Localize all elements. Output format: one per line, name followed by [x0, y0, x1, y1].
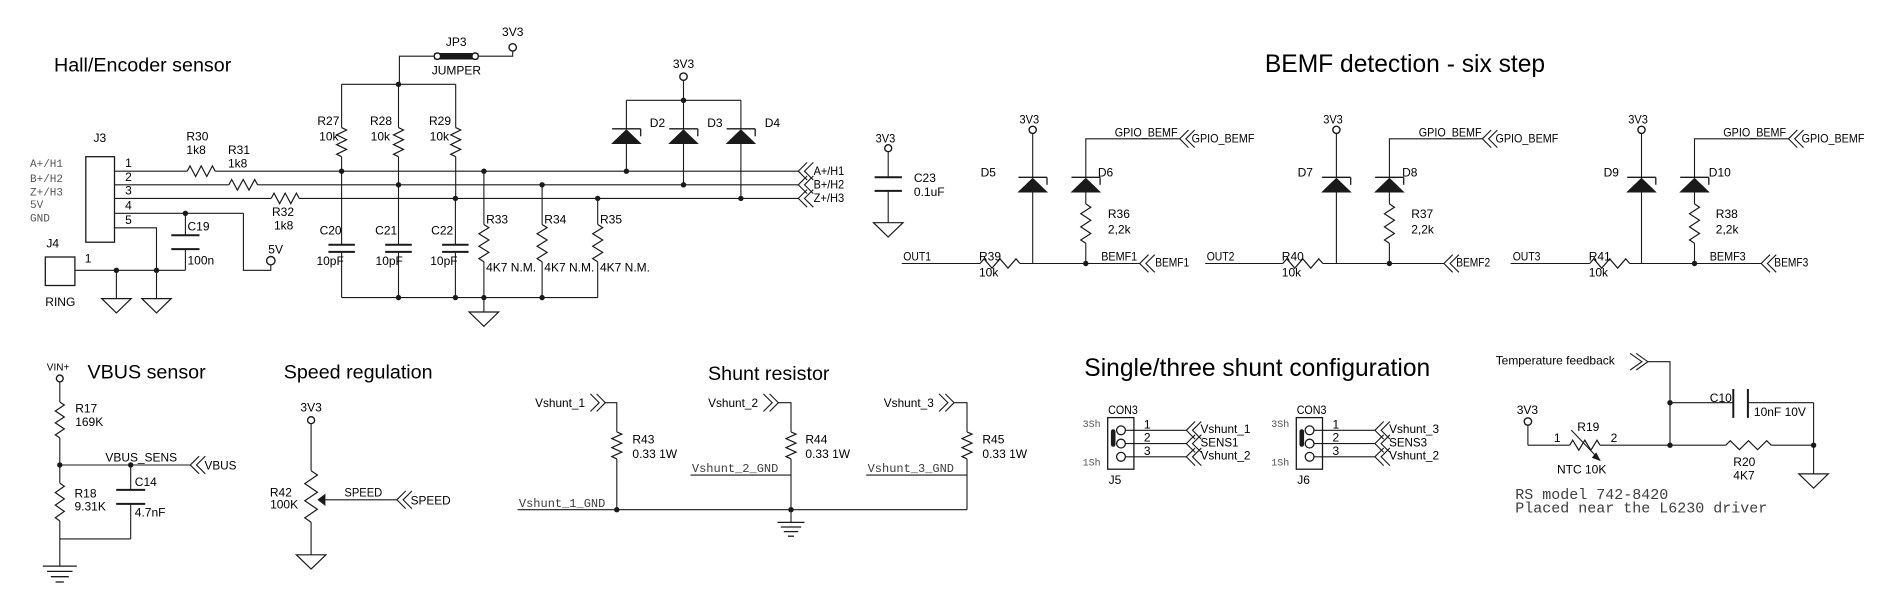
svg-text:C20: C20	[320, 224, 342, 238]
svg-text:Vshunt_1: Vshunt_1	[535, 396, 585, 410]
svg-text:3V3: 3V3	[1020, 113, 1040, 127]
svg-text:1: 1	[125, 156, 132, 170]
svg-text:0.33 1W: 0.33 1W	[632, 447, 677, 461]
resistor R27	[317, 114, 346, 171]
svg-text:0.33 1W: 0.33 1W	[805, 447, 850, 461]
svg-text:OUT3: OUT3	[1513, 250, 1541, 264]
resistor R28	[370, 114, 404, 185]
potentiometer R42	[270, 471, 326, 555]
power terminal 3V3 at R19	[1517, 403, 1539, 445]
resistor R30	[186, 130, 215, 177]
svg-text:10k: 10k	[430, 129, 450, 143]
svg-text:GPIO_BEMF: GPIO_BEMF	[1115, 126, 1178, 140]
resistor R33	[479, 171, 536, 297]
svg-text:1k8: 1k8	[228, 156, 248, 170]
svg-text:SENS3: SENS3	[1389, 435, 1427, 449]
ground at R20	[1799, 445, 1829, 488]
wire Vshunt_2 to R44	[778, 403, 791, 432]
svg-text:R37: R37	[1411, 207, 1433, 221]
resistor R45	[962, 432, 1028, 510]
ground at J3 pin5	[142, 270, 171, 313]
svg-text:1k8: 1k8	[274, 219, 294, 233]
svg-text:4: 4	[125, 198, 132, 212]
net flag Vshunt_3	[939, 394, 954, 412]
svg-text:3: 3	[125, 183, 132, 197]
svg-text:1k8: 1k8	[186, 143, 206, 157]
wire D10 to GPIO_BEMF	[1695, 139, 1789, 178]
svg-text:5V: 5V	[30, 200, 44, 212]
net flag VBUS	[190, 456, 236, 474]
svg-text:1: 1	[1144, 417, 1151, 431]
section title: Hall/Encoder sensor	[54, 55, 232, 77]
wire R42 wiper to SPEED	[325, 499, 397, 501]
wire J5 pin 2	[1125, 443, 1186, 445]
net label Vshunt_1	[535, 396, 585, 410]
wire Vshunt_1 to R43	[605, 403, 616, 432]
net flag Vshunt_1	[590, 394, 605, 412]
power terminal 3V3 at diodes	[673, 57, 695, 100]
net flag BEMF1	[1140, 255, 1190, 273]
net flag GPIO_BEMF (3)	[1789, 130, 1865, 148]
svg-text:D7: D7	[1298, 166, 1314, 180]
diode D9	[1604, 166, 1656, 264]
net flag Vshunt_3 at J6 pin 1	[1375, 422, 1440, 440]
net flag SENS1 at J5 pin 2	[1186, 435, 1239, 453]
power terminal 3V3 at D7	[1323, 113, 1343, 178]
connector J5 CON3	[1083, 403, 1151, 487]
net label BEMF3 on wire	[1710, 250, 1746, 264]
svg-text:R29: R29	[429, 114, 451, 128]
svg-text:2: 2	[125, 170, 132, 184]
svg-text:2: 2	[1144, 431, 1151, 445]
svg-text:0.1uF: 0.1uF	[914, 185, 945, 199]
wire OUT3 to BEMF3 line	[1511, 261, 1762, 266]
net label GPIO_BEMF on wire (3)	[1723, 126, 1786, 140]
svg-text:C14: C14	[135, 475, 157, 489]
svg-text:10k: 10k	[979, 266, 999, 280]
connector J3	[86, 131, 115, 242]
svg-text:3V3: 3V3	[876, 132, 896, 146]
resistor R43	[612, 432, 678, 510]
resistor R39	[979, 249, 1020, 279]
svg-text:3Sh: 3Sh	[1271, 419, 1289, 431]
svg-text:Vshunt_3: Vshunt_3	[884, 396, 934, 410]
svg-text:R38: R38	[1716, 207, 1738, 221]
wire R19 to R20	[1600, 444, 1726, 446]
svg-text:R34: R34	[544, 213, 566, 227]
capacitor C23	[875, 171, 945, 223]
svg-text:R39: R39	[979, 249, 1001, 263]
svg-text:1: 1	[1333, 417, 1340, 431]
svg-text:3V3: 3V3	[673, 57, 695, 71]
net label BEMF1 on wire	[1101, 250, 1137, 264]
svg-text:R35: R35	[600, 213, 622, 227]
svg-text:Hall/Encoder sensor: Hall/Encoder sensor	[54, 55, 232, 77]
power terminal 3V3 at R42	[300, 401, 322, 471]
power terminal 3V3 at C23	[876, 132, 896, 178]
wire pull-up rail R27-R29	[342, 82, 456, 128]
wire JP3 right to 3V3	[478, 51, 512, 56]
resistor R20	[1726, 441, 1771, 483]
svg-text:VBUS: VBUS	[205, 459, 237, 473]
earth ground at shunt rail	[778, 510, 805, 537]
svg-text:R45: R45	[982, 433, 1004, 447]
resistor R38	[1690, 192, 1740, 263]
svg-text:J4: J4	[46, 237, 59, 251]
svg-text:R43: R43	[632, 433, 654, 447]
svg-text:R31: R31	[228, 143, 250, 157]
svg-text:C21: C21	[375, 224, 397, 238]
section title: VBUS sensor	[88, 361, 207, 383]
net flag Vshunt_2	[763, 394, 778, 412]
svg-text:C23: C23	[914, 171, 936, 185]
svg-text:5: 5	[125, 213, 132, 227]
svg-text:CON3: CON3	[1108, 403, 1138, 417]
svg-text:A+/H1: A+/H1	[814, 164, 845, 178]
svg-text:100n: 100n	[188, 253, 215, 267]
resistor R31	[228, 143, 258, 190]
power terminal 3V3 at D9	[1628, 113, 1648, 178]
svg-text:BEMF3: BEMF3	[1774, 255, 1808, 269]
diode D3	[669, 116, 723, 185]
svg-text:BEMF2: BEMF2	[1456, 255, 1490, 269]
svg-text:Speed regulation: Speed regulation	[284, 361, 433, 383]
net label Vshunt_2_GND	[692, 462, 778, 476]
resistor R35	[593, 198, 650, 297]
wire R20 to ground node	[1771, 403, 1816, 448]
svg-text:10nF 10V: 10nF 10V	[1754, 405, 1806, 419]
svg-text:GPIO_BEMF: GPIO_BEMF	[1419, 126, 1482, 140]
section title: Speed regulation	[284, 361, 433, 383]
wire J5 pin 3	[1125, 456, 1186, 458]
capacitor C10	[1670, 389, 1814, 419]
svg-text:R33: R33	[486, 213, 508, 227]
capacitor C19	[171, 213, 214, 270]
resistor R17	[55, 401, 103, 465]
svg-text:OUT2: OUT2	[1207, 250, 1235, 264]
svg-text:R36: R36	[1108, 207, 1130, 221]
svg-text:R18: R18	[75, 486, 97, 500]
svg-text:Vshunt_2: Vshunt_2	[708, 396, 758, 410]
svg-text:B+/H2: B+/H2	[30, 174, 63, 186]
svg-text:Vshunt_2: Vshunt_2	[1389, 449, 1439, 463]
power terminal 3V3 at D5	[1020, 113, 1040, 178]
wire A+/H1 line with junctions	[115, 169, 799, 174]
svg-text:D8: D8	[1402, 166, 1418, 180]
ground at filter rail	[469, 298, 499, 327]
wire J6 pin 3	[1314, 456, 1375, 458]
net flag SPEED	[397, 491, 451, 509]
svg-text:Temperature feedback: Temperature feedback	[1496, 354, 1616, 368]
net flag Vshunt_2 at J5 pin 3	[1186, 448, 1251, 466]
net flag A+/H1	[798, 162, 844, 180]
svg-text:A+/H1: A+/H1	[30, 159, 63, 171]
svg-text:2,2k: 2,2k	[1411, 223, 1435, 237]
resistor R34	[537, 185, 594, 298]
resistor R37	[1384, 192, 1434, 263]
svg-text:VIN+: VIN+	[47, 363, 70, 374]
svg-text:D6: D6	[1098, 166, 1114, 180]
net label VBUS_SENS	[105, 451, 177, 465]
svg-text:J5: J5	[1109, 473, 1122, 487]
wire J3 pin 4 to 5V	[115, 211, 271, 271]
net label OUT2	[1207, 250, 1235, 264]
resistor R29	[429, 114, 461, 198]
svg-text:R32: R32	[272, 205, 294, 219]
svg-text:3V3: 3V3	[1323, 113, 1343, 127]
svg-text:3: 3	[1144, 444, 1151, 458]
wire C14 to R18 bottom	[60, 538, 131, 540]
svg-text:D5: D5	[981, 166, 997, 180]
svg-text:10k: 10k	[319, 129, 339, 143]
svg-text:Vshunt_1_GND: Vshunt_1_GND	[519, 497, 605, 511]
resistor R18	[55, 465, 106, 566]
svg-text:VBUS_SENS: VBUS_SENS	[105, 451, 177, 465]
svg-text:C19: C19	[188, 219, 210, 233]
svg-text:10k: 10k	[1589, 266, 1609, 280]
net label GPIO_BEMF on wire (1)	[1115, 126, 1178, 140]
net flag Temperature feedback	[1630, 353, 1648, 370]
note text RS model	[1515, 487, 1767, 518]
wire J3 pin 5 to ground	[115, 228, 157, 270]
net flag Vshunt_1 at J5 pin 1	[1186, 422, 1251, 440]
diode D6	[1072, 166, 1114, 192]
svg-text:VBUS sensor: VBUS sensor	[88, 361, 207, 383]
svg-text:C22: C22	[431, 224, 453, 238]
svg-text:2,2k: 2,2k	[1108, 223, 1132, 237]
svg-text:C10: C10	[1710, 391, 1732, 405]
wire D6 to GPIO_BEMF	[1086, 139, 1180, 178]
net flag Z+/H3	[798, 190, 844, 208]
wire diode rail D2-D4	[626, 98, 741, 129]
svg-text:JUMPER: JUMPER	[432, 64, 482, 78]
diode D7	[1298, 166, 1351, 264]
svg-text:RING: RING	[45, 295, 75, 309]
ground at J4	[102, 270, 132, 313]
svg-text:R27: R27	[317, 114, 339, 128]
svg-text:Shunt resistor: Shunt resistor	[708, 363, 830, 385]
svg-text:10pF: 10pF	[316, 254, 343, 268]
svg-text:1: 1	[85, 252, 92, 266]
wire J4 pin 1 to C19	[75, 268, 185, 273]
svg-text:100K: 100K	[270, 497, 298, 511]
svg-text:Placed near the L6230 driver: Placed near the L6230 driver	[1515, 501, 1767, 518]
jumper JP3	[432, 35, 482, 77]
svg-text:0.33 1W: 0.33 1W	[982, 447, 1027, 461]
connector J4	[45, 237, 91, 309]
svg-text:D2: D2	[650, 116, 666, 130]
wire Vshunt_2_GND stub	[691, 474, 792, 476]
svg-text:BEMF3: BEMF3	[1710, 250, 1746, 264]
diode D4	[727, 116, 781, 198]
net label OUT3	[1513, 250, 1541, 264]
svg-text:4K7 N.M.: 4K7 N.M.	[544, 260, 594, 274]
svg-text:Vshunt_2: Vshunt_2	[1201, 449, 1251, 463]
capacitor C20	[316, 171, 354, 297]
wire OUT1 to BEMF1 line	[902, 261, 1140, 266]
svg-text:B+/H2: B+/H2	[814, 178, 845, 192]
svg-text:SPEED: SPEED	[411, 493, 451, 507]
svg-text:Vshunt_3: Vshunt_3	[1389, 422, 1439, 436]
svg-text:Z+/H3: Z+/H3	[814, 191, 845, 205]
svg-text:D10: D10	[1709, 166, 1731, 180]
wire Temperature feedback to NTC node	[1648, 362, 1673, 448]
wire Vshunt_3 to R45	[954, 403, 967, 432]
svg-text:R41: R41	[1589, 249, 1611, 263]
section title: Single/three shunt configuration	[1084, 355, 1430, 382]
section title: Shunt resistor	[708, 363, 830, 385]
svg-text:D4: D4	[765, 116, 781, 130]
section title: Temperature feedback	[1496, 354, 1616, 368]
capacitor C22	[430, 198, 468, 297]
svg-text:4K7 N.M.: 4K7 N.M.	[600, 260, 650, 274]
net flag BEMF2	[1444, 255, 1491, 273]
svg-text:R20: R20	[1733, 455, 1755, 469]
svg-text:2: 2	[1611, 431, 1618, 445]
wire 3V3 to R19	[1528, 431, 1570, 445]
svg-text:BEMF detection - six step: BEMF detection - six step	[1265, 51, 1545, 78]
earth ground at VBUS divider	[43, 566, 77, 582]
svg-text:4K7 N.M.: 4K7 N.M.	[486, 260, 536, 274]
resistor R41	[1589, 249, 1630, 279]
resistor R32	[271, 193, 299, 232]
ground at R42	[296, 555, 326, 569]
svg-text:R40: R40	[1282, 249, 1304, 263]
svg-text:D9: D9	[1604, 166, 1620, 180]
svg-text:GPIO_BEMF: GPIO_BEMF	[1802, 131, 1865, 145]
net flag Vshunt_2 at J6 pin 3	[1375, 448, 1440, 466]
diode D5	[981, 166, 1047, 264]
connector J6 CON3	[1271, 403, 1339, 487]
net label Vshunt_1_GND	[519, 497, 605, 511]
svg-text:GPIO_BEMF: GPIO_BEMF	[1496, 131, 1559, 145]
svg-text:10pF: 10pF	[430, 254, 457, 268]
capacitor C21	[375, 185, 412, 298]
svg-text:5V: 5V	[268, 243, 283, 257]
resistor R40	[1282, 249, 1323, 279]
power terminal 5V	[267, 243, 283, 265]
svg-text:BEMF1: BEMF1	[1101, 250, 1137, 264]
net label Vshunt_2	[708, 396, 758, 410]
svg-text:169K: 169K	[75, 415, 103, 429]
svg-text:Z+/H3: Z+/H3	[30, 187, 63, 199]
svg-text:9.31K: 9.31K	[75, 500, 106, 514]
power terminal 3V3 at JP3	[502, 25, 524, 51]
net label OUT1	[903, 250, 931, 264]
svg-text:10k: 10k	[1282, 266, 1302, 280]
wire JP3 left to pull-up rail	[399, 56, 434, 84]
ground at C23	[874, 223, 904, 237]
diode D8	[1375, 166, 1418, 192]
wire J6 pin 2	[1314, 443, 1375, 445]
wire J5 pin 1	[1125, 429, 1186, 431]
svg-text:GPIO_BEMF: GPIO_BEMF	[1192, 131, 1255, 145]
svg-text:OUT1: OUT1	[903, 250, 931, 264]
svg-text:SPEED: SPEED	[344, 485, 382, 499]
svg-text:Vshunt_2_GND: Vshunt_2_GND	[692, 462, 778, 476]
svg-text:2: 2	[1333, 431, 1340, 445]
wire VBUS_SENS node	[57, 462, 190, 467]
net flag BEMF3	[1761, 255, 1808, 273]
svg-text:10pF: 10pF	[376, 254, 403, 268]
net flag B+/H2	[798, 176, 844, 194]
thermistor R19 NTC 10K	[1557, 420, 1618, 476]
svg-text:J6: J6	[1297, 473, 1310, 487]
wire J6 pin 1	[1314, 429, 1375, 431]
svg-text:GPIO_BEMF: GPIO_BEMF	[1723, 126, 1786, 140]
diode D2	[612, 116, 665, 171]
capacitor C14	[116, 465, 165, 539]
svg-text:Single/three shunt configurati: Single/three shunt configuration	[1084, 355, 1430, 382]
diode D10	[1680, 166, 1731, 192]
svg-text:JP3: JP3	[446, 35, 467, 49]
svg-text:2,2k: 2,2k	[1716, 223, 1740, 237]
svg-text:3: 3	[1333, 444, 1340, 458]
svg-text:3V3: 3V3	[1628, 113, 1648, 127]
svg-text:R44: R44	[805, 433, 827, 447]
J3 pin name labels	[30, 159, 63, 225]
svg-text:1: 1	[1554, 431, 1561, 445]
wire Z+/H3 line with junctions	[115, 196, 799, 201]
svg-text:1Sh: 1Sh	[1083, 457, 1101, 469]
power terminal VIN+	[47, 363, 70, 402]
svg-text:3V3: 3V3	[502, 25, 524, 39]
svg-text:NTC 10K: NTC 10K	[1557, 462, 1606, 476]
net label Vshunt_3	[884, 396, 934, 410]
svg-text:3Sh: 3Sh	[1083, 419, 1101, 431]
svg-text:Vshunt_3_GND: Vshunt_3_GND	[868, 462, 954, 476]
wire D8 to GPIO_BEMF	[1389, 139, 1482, 178]
svg-text:Vshunt_1: Vshunt_1	[1201, 422, 1251, 436]
svg-text:D3: D3	[707, 116, 723, 130]
svg-text:GND: GND	[30, 213, 50, 225]
svg-text:CON3: CON3	[1297, 403, 1327, 417]
svg-text:J3: J3	[94, 131, 107, 145]
wire Vshunt_1_GND rail	[518, 507, 967, 512]
svg-text:SENS1: SENS1	[1201, 435, 1239, 449]
wire Vshunt_3_GND stub	[866, 474, 967, 476]
wire bottom rail of C20-R35	[342, 295, 598, 300]
svg-text:R19: R19	[1577, 420, 1599, 434]
svg-text:4K7: 4K7	[1733, 468, 1755, 482]
svg-text:R30: R30	[186, 130, 208, 144]
svg-text:3V3: 3V3	[300, 401, 322, 415]
svg-text:R28: R28	[370, 114, 392, 128]
net label GPIO_BEMF on wire (2)	[1419, 126, 1482, 140]
J3 pin numbers 1-5	[125, 156, 132, 227]
svg-text:3V3: 3V3	[1517, 403, 1539, 417]
net flag GPIO_BEMF (2)	[1482, 130, 1558, 148]
svg-text:1Sh: 1Sh	[1271, 457, 1289, 469]
svg-text:R17: R17	[75, 401, 97, 415]
wire B+/H2 line with junctions	[115, 182, 799, 187]
net flag GPIO_BEMF (1)	[1180, 130, 1255, 148]
wire OUT2 to BEMF2 line	[1205, 261, 1444, 266]
svg-text:10k: 10k	[371, 129, 391, 143]
svg-text:BEMF1: BEMF1	[1155, 255, 1189, 269]
net label Vshunt_3_GND	[868, 462, 954, 476]
net flag SENS3 at J6 pin 2	[1375, 435, 1428, 453]
resistor R36	[1081, 192, 1132, 263]
svg-text:4.7nF: 4.7nF	[135, 505, 166, 519]
section title: BEMF detection - six step	[1265, 51, 1545, 78]
resistor R44	[786, 432, 851, 510]
net label SPEED on wire	[344, 485, 382, 499]
